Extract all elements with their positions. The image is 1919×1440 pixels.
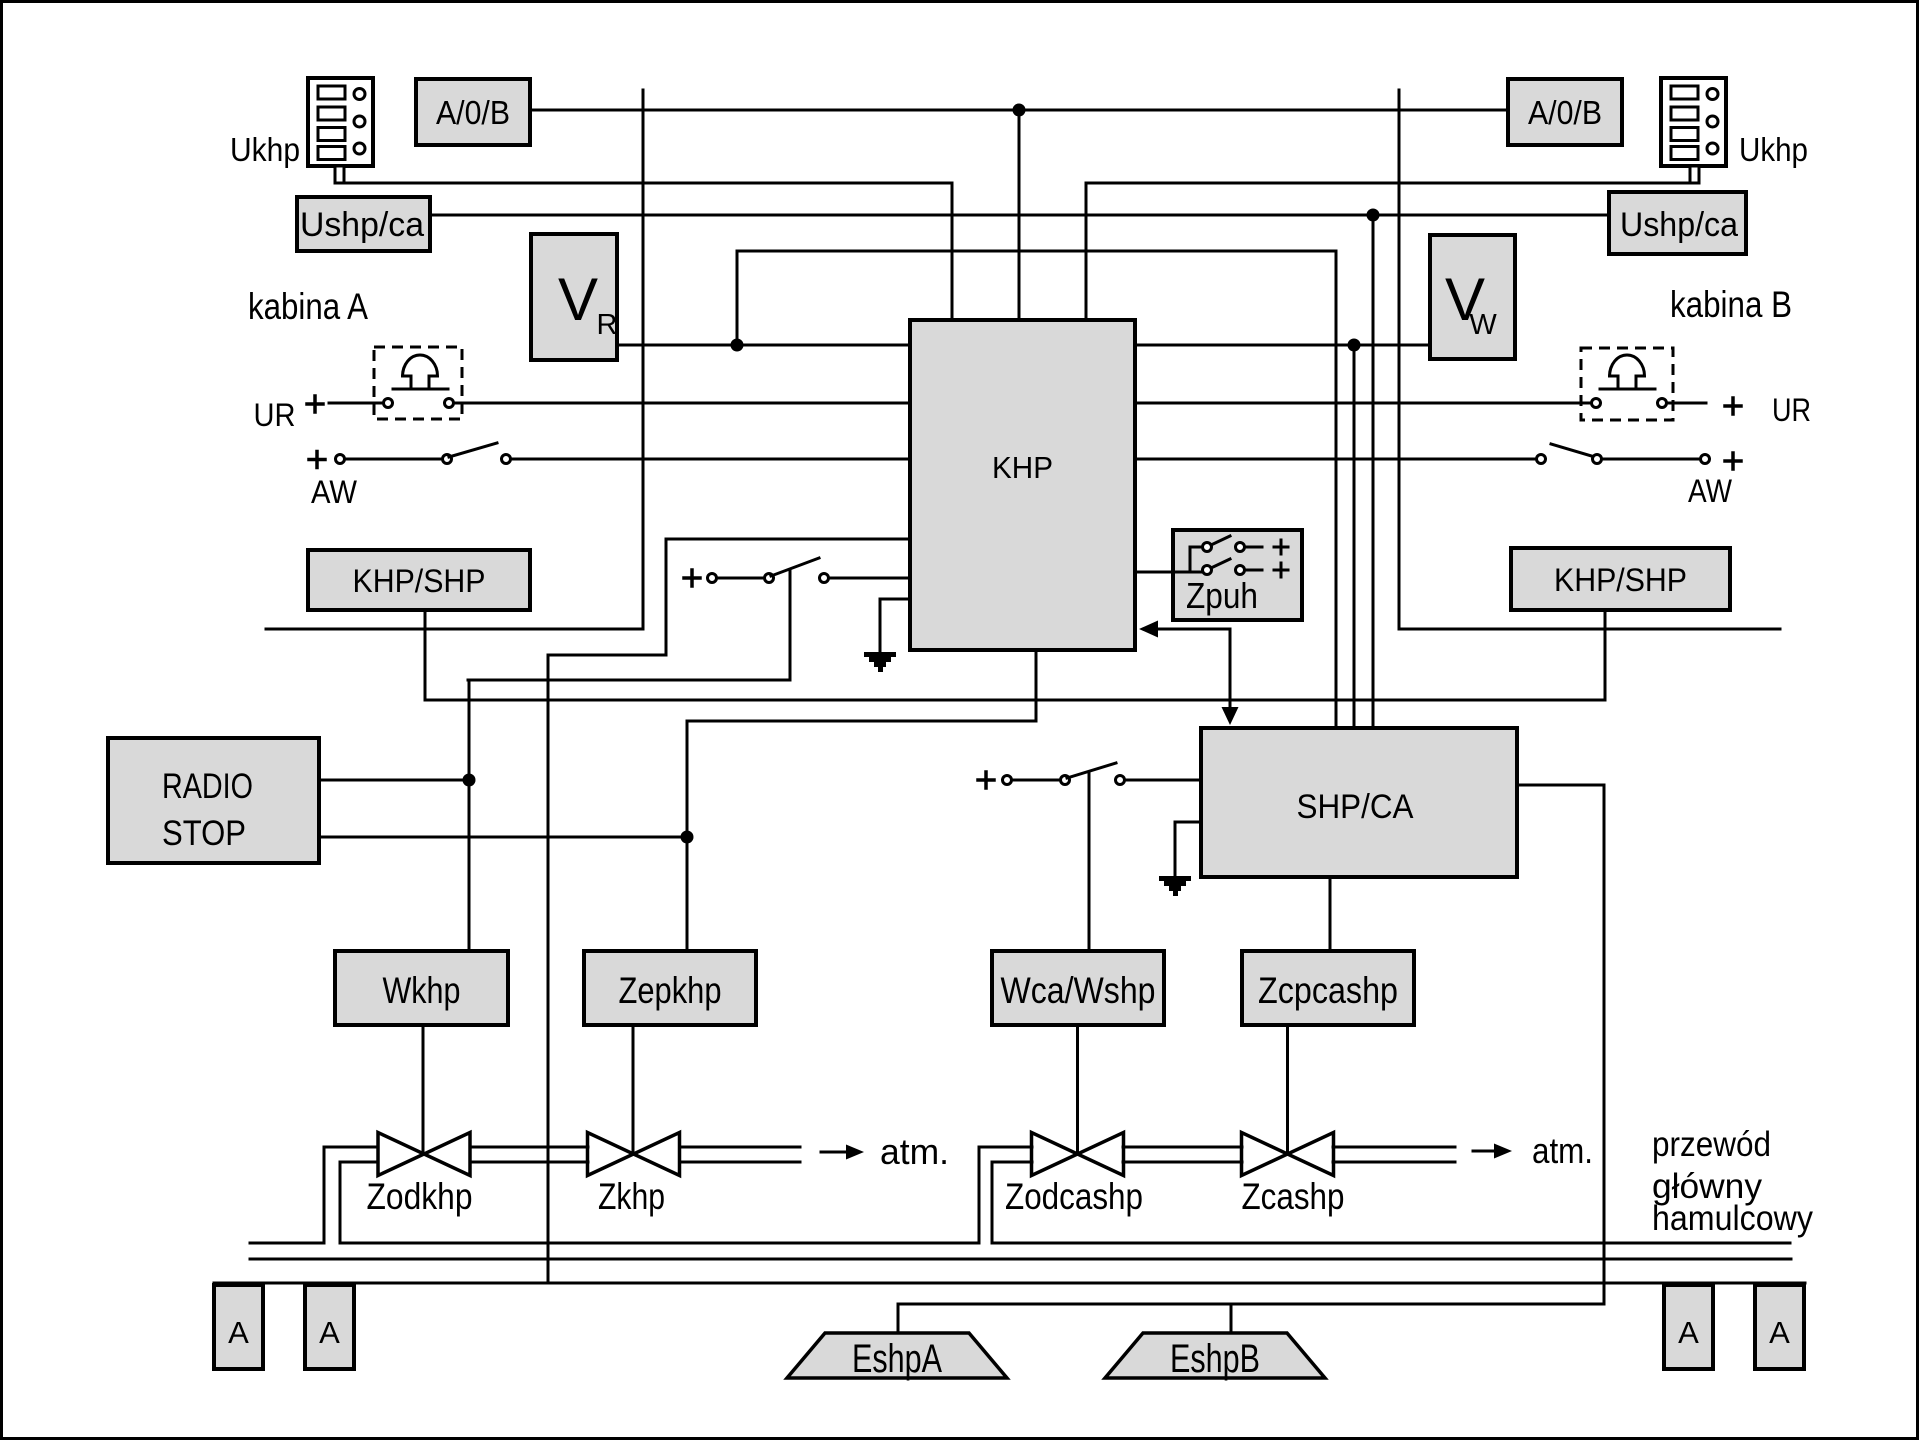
svg-text:A: A — [228, 1315, 249, 1350]
wire EshpB stub — [1230, 1304, 1233, 1333]
arrowhead into SHP/CA top — [1222, 707, 1239, 725]
ground symbol SHP/CA — [1159, 876, 1191, 896]
wire UR right lead (cab B) — [1668, 402, 1706, 405]
wire Wkhp to valve Zodkhp — [422, 1025, 425, 1154]
svg-text:Zcashp: Zcashp — [1242, 1176, 1345, 1217]
wire vertical right trunk x1399 — [1398, 90, 1401, 629]
wire UR left lead — [329, 402, 382, 405]
main brake pipe line y1259 — [250, 1258, 1791, 1261]
plus marks Zpuh — [1274, 540, 1288, 577]
wire SHP/CA right output down to Eshp line — [1517, 785, 1604, 1304]
svg-text:kabina B: kabina B — [1670, 284, 1792, 325]
svg-text:Ushp/ca: Ushp/ca — [300, 206, 424, 244]
wire y680 horizontal — [468, 679, 790, 682]
box A/0/B (left) — [416, 79, 530, 145]
box KHP — [910, 320, 1135, 650]
wire KHP/SHP right stub down — [1604, 610, 1607, 700]
pipe drop Zodcashp upper — [978, 1147, 981, 1243]
wire KHP ground stub — [880, 599, 910, 652]
pipe lower line segments y1162 — [340, 1161, 1455, 1164]
svg-text:EshpA: EshpA — [852, 1337, 942, 1381]
svg-text:EshpB: EshpB — [1170, 1337, 1260, 1381]
wire net A/0/B bus — [530, 109, 1508, 112]
svg-text:AW: AW — [1688, 473, 1733, 509]
svg-text:Zkhp: Zkhp — [598, 1176, 665, 1217]
contact circles UR (cab B) — [1592, 399, 1601, 408]
box A 4 — [1755, 1285, 1804, 1369]
wire UR to KHP (cab A) — [455, 402, 910, 405]
box Ushp/ca (left) — [297, 197, 430, 251]
wire from switch blade down to Wkhp feed — [789, 570, 792, 680]
pipe upper line segments y1147 — [324, 1146, 1455, 1149]
box RADIO STOP — [108, 738, 319, 863]
box Ushp/ca (right) — [1609, 192, 1746, 254]
junction dot node VW — [1348, 339, 1361, 352]
box Zepkhp — [584, 951, 756, 1025]
wire bus under KHP/SHP left — [266, 628, 643, 631]
svg-text:W: W — [1469, 309, 1497, 341]
box KHP/SHP (right) — [1511, 548, 1730, 610]
svg-text:hamulcowy: hamulcowy — [1652, 1199, 1813, 1238]
wire from blade down to Wca/Wshp — [1088, 772, 1091, 951]
svg-text:A: A — [1678, 1315, 1699, 1350]
pipe bottom from Zodcashp right — [992, 1242, 1790, 1245]
junction dot Wkhp feed — [463, 774, 476, 787]
pushbutton symbol (cab A) — [393, 355, 448, 389]
pipe drop Zodcashp lower — [991, 1162, 994, 1243]
svg-text:AW: AW — [311, 474, 358, 510]
arrowhead into KHP — [1139, 621, 1158, 638]
svg-text:przewód: przewód — [1652, 1125, 1771, 1164]
arrow atm 2 — [1473, 1150, 1498, 1153]
valve Zodkhp — [378, 1133, 470, 1176]
junction dot node VR — [731, 339, 744, 352]
wire VR to KHP left — [617, 344, 910, 347]
svg-text:Zpuh: Zpuh — [1186, 575, 1258, 616]
wire bus under KHP/SHP right — [1399, 628, 1780, 631]
wire net Ushp/ca bus — [430, 214, 1609, 217]
wire SHP/CA ground stub — [1175, 822, 1201, 876]
switch contacts Zpuh — [1203, 543, 1245, 575]
wire vertical VW line to SHP/CA — [1353, 345, 1356, 728]
svg-text:atm.: atm. — [880, 1131, 949, 1172]
wire AW to KHP (cab A) — [512, 458, 910, 461]
wire Ukhp left to KHP top — [344, 183, 952, 320]
wire Ukhp right to KHP top — [1086, 183, 1690, 320]
contact circles UR (cab A) — [384, 399, 393, 408]
wire KHP to Zpuh — [1135, 547, 1202, 572]
box VR (left) — [531, 234, 617, 360]
box A 1 — [214, 1285, 263, 1369]
svg-text:atm.: atm. — [1532, 1130, 1593, 1171]
pipe drop Zodkhp upper — [323, 1147, 326, 1243]
trapezoid EshpA — [787, 1333, 1007, 1378]
pushbutton dashed box (cab A) — [374, 347, 462, 419]
svg-text:Zodkhp: Zodkhp — [367, 1176, 473, 1217]
svg-text:A: A — [1769, 1315, 1790, 1350]
wire Wca/Wshp to valve Zodcashp — [1076, 1025, 1079, 1154]
svg-text:kabina A: kabina A — [248, 286, 368, 327]
wire SHP/CA bottom stub to Zcpcashp — [1329, 877, 1332, 951]
pipe bottom stub left — [250, 1242, 324, 1245]
connector Ukhp (left) — [308, 78, 373, 183]
box Zcpcashp — [1242, 951, 1414, 1025]
wire arrow branch into KHP right — [1154, 629, 1230, 710]
svg-text:V: V — [558, 266, 598, 333]
box Zpuh — [1173, 530, 1302, 620]
switch to SHP/CA left edge — [1003, 776, 1012, 785]
wire RADIO STOP lower output — [319, 836, 687, 839]
svg-text:UR: UR — [254, 397, 296, 433]
svg-text:KHP/SHP: KHP/SHP — [1554, 562, 1687, 598]
svg-text:SHP/CA: SHP/CA — [1297, 788, 1414, 826]
switch AW (cab B) — [1537, 455, 1546, 464]
arrow atm 1 — [821, 1151, 850, 1154]
plus UR (cab B) — [1725, 398, 1741, 414]
plus AW (cab B) — [1725, 453, 1741, 469]
svg-text:Zodcashp: Zodcashp — [1005, 1176, 1143, 1217]
wire RADIO STOP upper output — [319, 779, 468, 782]
box A 3 — [1664, 1285, 1713, 1369]
wire Eshp line y1304 — [898, 1303, 1604, 1306]
wire KHP/SHP left stub down — [424, 610, 427, 700]
box Wca/Wshp — [992, 951, 1164, 1025]
svg-text:A: A — [319, 1315, 340, 1350]
valve Zcashp — [1242, 1133, 1334, 1176]
wire KHP left y539 staircase to bottom bus — [548, 539, 910, 1283]
wire EshpA stub — [897, 1304, 900, 1333]
valve Zodcashp — [1032, 1133, 1124, 1176]
svg-text:Zepkhp: Zepkhp — [619, 970, 722, 1011]
svg-text:Zcpcashp: Zcpcashp — [1258, 970, 1398, 1011]
wire net KHP/SHP y700 — [425, 699, 1605, 702]
wire Zepkhp to valve Zkhp — [632, 1025, 635, 1154]
svg-text:Ukhp: Ukhp — [1739, 131, 1808, 168]
switch AW (cab A) — [336, 455, 345, 464]
distributor bus y1283 — [214, 1282, 1805, 1285]
wire vertical left trunk x643 — [642, 90, 645, 629]
plus switch KHP left — [684, 570, 700, 586]
wire loop from VR line over KHP to SHP/CA — [737, 251, 1336, 728]
plus AW (cab A) — [309, 452, 325, 468]
svg-text:STOP: STOP — [162, 814, 246, 853]
wire vertical x687 Zepkhp feed — [686, 721, 689, 951]
svg-text:KHP/SHP: KHP/SHP — [353, 563, 486, 599]
wire vertical Ushp/ca to SHP/CA — [1372, 215, 1375, 728]
box Wkhp — [335, 951, 508, 1025]
plus switch SHP/CA — [978, 772, 994, 788]
svg-text:Wkhp: Wkhp — [383, 970, 461, 1011]
box SHP/CA — [1201, 728, 1517, 877]
wire vertical x469 to Wkhp — [468, 680, 471, 951]
ground symbol KHP — [864, 652, 896, 672]
svg-text:RADIO: RADIO — [162, 767, 253, 806]
svg-text:R: R — [597, 309, 618, 341]
wire KHP right to VW — [1135, 344, 1430, 347]
wire AW from KHP (cab B) — [1135, 458, 1535, 461]
plus UR (cab A) — [307, 396, 323, 412]
svg-text:UR: UR — [1772, 392, 1811, 428]
box A 2 — [305, 1285, 354, 1369]
svg-text:A/0/B: A/0/B — [436, 94, 510, 131]
box A/0/B (right) — [1508, 79, 1622, 145]
junction dot Zepkhp feed — [681, 831, 694, 844]
svg-text:Ukhp: Ukhp — [230, 131, 300, 168]
svg-text:Wca/Wshp: Wca/Wshp — [1001, 970, 1156, 1011]
pushbutton symbol (cab B) — [1600, 355, 1655, 389]
junction dot node Ushp — [1367, 209, 1380, 222]
pipe bottom connect Zodkhp-Zodcashp — [340, 1242, 979, 1245]
pushbutton dashed box (cab B) — [1581, 348, 1673, 420]
pipe drop Zodkhp lower — [339, 1162, 342, 1243]
wire vertical from A/0/B bus to KHP top — [1018, 110, 1021, 320]
wire Zcpcashp to valve Zcashp — [1286, 1025, 1289, 1154]
connector Ukhp (right) — [1661, 78, 1726, 183]
svg-text:KHP: KHP — [992, 450, 1053, 485]
box VW (right) — [1430, 235, 1515, 359]
switch to KHP left edge — [708, 574, 717, 583]
svg-text:Ushp/ca: Ushp/ca — [1620, 206, 1738, 244]
box KHP/SHP (left) — [308, 550, 530, 610]
valve Zkhp — [588, 1133, 680, 1176]
trapezoid EshpB — [1105, 1333, 1325, 1378]
svg-text:A/0/B: A/0/B — [1528, 94, 1602, 131]
wire KHP bottom stub to y721 — [687, 650, 1036, 721]
junction dot node A0B — [1013, 104, 1026, 117]
wire UR from KHP (cab B) — [1135, 402, 1590, 405]
